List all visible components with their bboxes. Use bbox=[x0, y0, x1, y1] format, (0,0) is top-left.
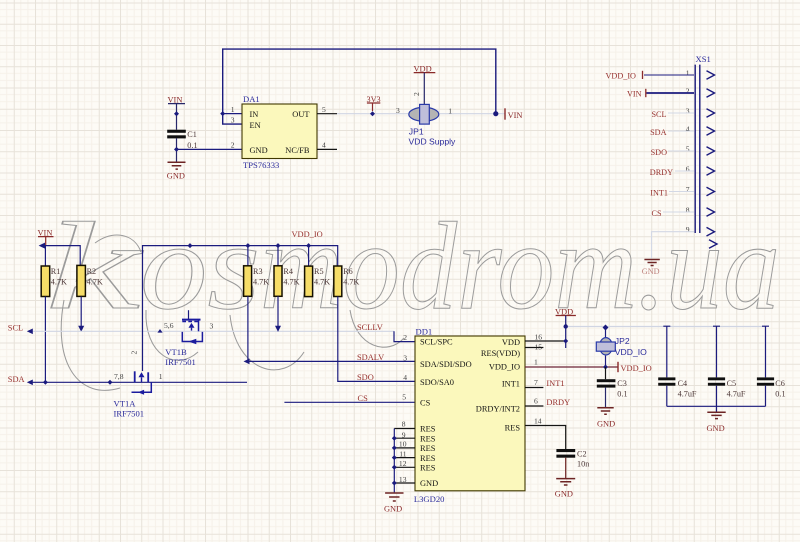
svg-text:1: 1 bbox=[159, 372, 163, 381]
wire cap ground bus bbox=[667, 406, 766, 411]
svg-text:SDA: SDA bbox=[8, 375, 25, 384]
svg-text:CS: CS bbox=[358, 394, 369, 403]
wire DD1 pin14 to C2 bbox=[525, 426, 566, 450]
svg-text:GND: GND bbox=[384, 504, 402, 513]
svg-text:os: os bbox=[140, 198, 260, 336]
svg-text:VIN: VIN bbox=[627, 90, 642, 99]
svg-text:16: 16 bbox=[535, 333, 543, 342]
svg-text:INT1: INT1 bbox=[546, 379, 564, 388]
svg-text:DD1: DD1 bbox=[416, 326, 433, 336]
resistor R1 bbox=[41, 266, 67, 297]
svg-text:IN: IN bbox=[250, 110, 259, 119]
svg-text:SCLLV: SCLLV bbox=[357, 323, 383, 332]
svg-text:IRF7501: IRF7501 bbox=[165, 357, 196, 367]
svg-text:GND: GND bbox=[250, 146, 268, 155]
IC DD1 L3GD20 bbox=[414, 326, 525, 504]
svg-text:4: 4 bbox=[686, 124, 690, 133]
svg-text:VDD_IO: VDD_IO bbox=[292, 230, 323, 239]
power port VDD (above JP1) bbox=[412, 64, 435, 104]
wire CS to DD1 pin5 bbox=[284, 401, 415, 403]
svg-text:SDO: SDO bbox=[357, 373, 374, 382]
svg-text:4.7uF: 4.7uF bbox=[727, 389, 746, 398]
wire top loop (DA1 IN/EN to JP1 right) bbox=[223, 49, 496, 124]
svg-text:VDD_IO: VDD_IO bbox=[621, 364, 652, 373]
stub DD1 pin7 + net label INT1 bbox=[525, 379, 565, 388]
port VIN (right of JP1) bbox=[505, 108, 522, 120]
svg-text:2: 2 bbox=[130, 351, 139, 355]
svg-text:4: 4 bbox=[403, 373, 407, 382]
junctions on RES bus bbox=[392, 436, 397, 486]
svg-text:TPS76333: TPS76333 bbox=[243, 160, 279, 170]
wire SDALV to DD1 pin3 bbox=[244, 359, 416, 365]
svg-text:GND: GND bbox=[167, 172, 185, 181]
svg-text:SDALV: SDALV bbox=[357, 353, 384, 362]
svg-text:SDO/SA0: SDO/SA0 bbox=[420, 378, 454, 387]
wire R1 bottom to SDA bbox=[44, 297, 46, 383]
svg-text:CS: CS bbox=[420, 399, 431, 408]
svg-text:DRDY/INT2: DRDY/INT2 bbox=[476, 404, 520, 413]
port VDD_IO at XS1 pin1 bbox=[606, 71, 695, 81]
power port 3V3 bbox=[367, 95, 381, 116]
wire R3 bottom to SDALV bbox=[247, 296, 249, 361]
svg-text:SDA/SDI/SDO: SDA/SDI/SDO bbox=[420, 360, 472, 369]
svg-text:1: 1 bbox=[448, 107, 452, 116]
resistor R2 bbox=[77, 265, 103, 296]
svg-text:5: 5 bbox=[402, 392, 406, 401]
svg-text:4.7K: 4.7K bbox=[51, 278, 67, 287]
capacitor C4 bbox=[658, 326, 697, 406]
wire R4 bottom arrow to SCL row bbox=[275, 296, 281, 332]
svg-text:3: 3 bbox=[403, 353, 407, 362]
svg-text:6: 6 bbox=[686, 164, 690, 173]
svg-text:VT1A: VT1A bbox=[114, 399, 137, 409]
svg-text:C2: C2 bbox=[577, 450, 587, 459]
svg-text:4: 4 bbox=[322, 141, 326, 150]
svg-text:0.1: 0.1 bbox=[775, 389, 785, 398]
capacitor C6 bbox=[757, 326, 786, 406]
ground at XS1 pin9 bbox=[642, 260, 660, 276]
svg-text:SCL: SCL bbox=[8, 324, 23, 333]
svg-text:SCL: SCL bbox=[651, 110, 666, 119]
transistor VT1B IRF7501 bbox=[157, 320, 213, 367]
svg-text:XS1: XS1 bbox=[696, 54, 711, 64]
ground under C3 bbox=[597, 408, 615, 429]
svg-text:VDD_IO: VDD_IO bbox=[606, 71, 637, 80]
svg-text:1: 1 bbox=[534, 357, 538, 366]
resistor R3 bbox=[244, 266, 270, 297]
jumper JP2 bbox=[596, 327, 647, 368]
DD1 left RES/GND stubs and bus bbox=[394, 429, 415, 493]
svg-text:7: 7 bbox=[534, 378, 538, 387]
power port VIN (top-left) bbox=[168, 95, 186, 129]
svg-text:NC/FB: NC/FB bbox=[285, 146, 310, 155]
net label SCL + light wire bbox=[8, 324, 394, 335]
wire VDD_IO rail bbox=[143, 246, 338, 371]
svg-text:5,6: 5,6 bbox=[164, 321, 174, 330]
svg-text:14: 14 bbox=[534, 416, 542, 425]
svg-text:VIN: VIN bbox=[508, 111, 523, 120]
port VIN at XS1 pin2 bbox=[627, 89, 694, 99]
svg-text:JP1: JP1 bbox=[409, 127, 424, 137]
XS1 pin numbers bbox=[686, 68, 690, 234]
svg-text:4.7K: 4.7K bbox=[283, 278, 299, 287]
XS1 chevrons bbox=[707, 71, 718, 249]
connector XS1 bbox=[695, 54, 711, 233]
svg-text:6: 6 bbox=[534, 397, 538, 406]
svg-text:R6: R6 bbox=[343, 267, 353, 276]
svg-text:GND: GND bbox=[642, 267, 660, 276]
svg-text:CS: CS bbox=[651, 209, 661, 218]
stub DD1 pin15 bbox=[525, 347, 543, 349]
net label SDA + wire bbox=[8, 375, 247, 385]
wire R6 bottom / SDO to DD1 pin4 bbox=[338, 297, 415, 382]
svg-text:RES: RES bbox=[420, 464, 436, 473]
svg-text:VDD_IO: VDD_IO bbox=[615, 347, 647, 357]
svg-text:4.7K: 4.7K bbox=[343, 278, 359, 287]
light bus VDD to caps bbox=[566, 326, 766, 328]
wire VIN to R1/R2 tops bbox=[39, 243, 81, 266]
junction on VIN wire bbox=[174, 111, 179, 116]
svg-text:RES: RES bbox=[420, 454, 436, 463]
wire R2 bottom to SCL bbox=[78, 296, 84, 332]
ground under C4-C6 bbox=[707, 412, 726, 433]
svg-text:SDO: SDO bbox=[651, 148, 667, 157]
ground under RES bus bbox=[384, 493, 404, 513]
ground under C1 bbox=[167, 162, 186, 180]
svg-text:9: 9 bbox=[686, 225, 690, 234]
capacitor C5 bbox=[708, 326, 746, 406]
svg-text:DA1: DA1 bbox=[243, 94, 260, 104]
port VDD_IO (right of DD1) bbox=[618, 362, 652, 373]
svg-text:RES: RES bbox=[505, 423, 521, 432]
svg-text:C1: C1 bbox=[187, 130, 197, 139]
ground under C2 bbox=[555, 479, 575, 499]
svg-text:EN: EN bbox=[250, 121, 261, 130]
capacitor C2 bbox=[556, 449, 589, 478]
wire stub DA1 pin1 bbox=[223, 113, 242, 115]
svg-text:3: 3 bbox=[686, 106, 690, 115]
transistor VT1A IRF7501 bbox=[114, 351, 163, 419]
svg-text:R1: R1 bbox=[51, 267, 61, 276]
svg-text:2: 2 bbox=[231, 141, 235, 150]
svg-text:4.7uF: 4.7uF bbox=[678, 389, 697, 398]
svg-text:RES(VDD): RES(VDD) bbox=[481, 349, 520, 358]
svg-text:3: 3 bbox=[396, 106, 400, 115]
junction dot at top loop / VIN wire bbox=[493, 111, 498, 116]
svg-text:4.7K: 4.7K bbox=[314, 278, 330, 287]
svg-text:8: 8 bbox=[686, 205, 690, 214]
resistor R5 bbox=[305, 266, 331, 297]
junction VDD/pin16 bbox=[563, 339, 568, 344]
jumper JP1 bbox=[396, 104, 456, 146]
svg-text:VT1B: VT1B bbox=[165, 347, 187, 357]
svg-text:GND: GND bbox=[707, 424, 725, 433]
svg-text:4.7K: 4.7K bbox=[87, 278, 103, 287]
svg-text:GND: GND bbox=[555, 489, 573, 498]
svg-text:GND: GND bbox=[420, 479, 438, 488]
svg-text:8: 8 bbox=[402, 419, 406, 428]
junction JP2/C3 on VDD_IO wire bbox=[603, 365, 608, 370]
svg-text:RES: RES bbox=[420, 425, 436, 434]
svg-text:0.1: 0.1 bbox=[187, 141, 197, 150]
svg-text:5: 5 bbox=[686, 144, 690, 153]
svg-text:VDD_IO: VDD_IO bbox=[489, 363, 520, 372]
svg-text:1: 1 bbox=[231, 105, 235, 114]
svg-text:R2: R2 bbox=[87, 267, 97, 276]
svg-text:OUT: OUT bbox=[292, 110, 309, 119]
power port VDD (above DD1 pin16) bbox=[555, 307, 576, 348]
svg-text:SCL/SPC: SCL/SPC bbox=[420, 338, 453, 347]
svg-text:IRF7501: IRF7501 bbox=[114, 409, 145, 419]
svg-text:DRDY: DRDY bbox=[546, 398, 570, 407]
svg-text:C3: C3 bbox=[617, 379, 627, 388]
power port VIN (middle-left) bbox=[38, 228, 54, 245]
svg-text:3: 3 bbox=[231, 115, 235, 124]
resistor R4 bbox=[274, 266, 300, 297]
svg-text:VIN: VIN bbox=[168, 95, 183, 104]
svg-text:DRDY: DRDY bbox=[650, 168, 673, 177]
svg-text:C4: C4 bbox=[678, 379, 688, 388]
junction at DA1 pin1 bbox=[220, 111, 225, 116]
light wire OUT to JP1 to VIN port bbox=[337, 113, 505, 115]
svg-text:INT1: INT1 bbox=[502, 379, 520, 388]
svg-text:2: 2 bbox=[403, 333, 407, 342]
wire C1 to DA1 GND pin bbox=[177, 148, 243, 150]
svg-text:JP2: JP2 bbox=[615, 336, 630, 346]
svg-text:INT1: INT1 bbox=[650, 188, 668, 197]
svg-text:VDD: VDD bbox=[502, 338, 520, 347]
DD1 left pin numbers bbox=[399, 333, 407, 484]
svg-text:C6: C6 bbox=[775, 379, 785, 388]
svg-text:7: 7 bbox=[686, 185, 690, 194]
watermark kosmodrom.ua bbox=[45, 198, 780, 390]
svg-text:2: 2 bbox=[686, 86, 690, 95]
svg-text:5: 5 bbox=[322, 105, 326, 114]
svg-text:4.7K: 4.7K bbox=[253, 278, 269, 287]
svg-text:R4: R4 bbox=[283, 267, 293, 276]
svg-text:10n: 10n bbox=[577, 460, 589, 469]
svg-text:3: 3 bbox=[210, 322, 214, 331]
DD1 right pin numbers bbox=[534, 333, 542, 426]
svg-text:RES: RES bbox=[420, 444, 436, 453]
XS1 net labels SCL..CS with light stubs bbox=[650, 110, 673, 218]
svg-text:R3: R3 bbox=[253, 267, 263, 276]
svg-text:2: 2 bbox=[412, 92, 421, 96]
voltage regulator DA1 TPS76333 bbox=[231, 94, 337, 170]
resistor R6 bbox=[334, 266, 360, 297]
svg-text:C5: C5 bbox=[727, 379, 737, 388]
svg-text:GND: GND bbox=[597, 419, 615, 428]
junction VT1A gate/SDA bbox=[108, 380, 113, 385]
wire DD1 pin16 to VDD bbox=[525, 340, 566, 342]
junction C1/GND wire bbox=[174, 147, 179, 152]
capacitor C1 bbox=[167, 130, 197, 162]
svg-text:0.1: 0.1 bbox=[617, 390, 627, 399]
svg-text:7,8: 7,8 bbox=[114, 372, 124, 381]
svg-text:RES: RES bbox=[420, 434, 436, 443]
svg-text:L3GD20: L3GD20 bbox=[414, 494, 445, 504]
capacitor C3 bbox=[597, 367, 628, 407]
junction dots on light bus bbox=[564, 324, 568, 328]
stub DD1 pin6 + net label DRDY bbox=[525, 398, 570, 407]
svg-text:VDD Supply: VDD Supply bbox=[409, 136, 457, 146]
wire SCLLV to DD1 pin2 bbox=[394, 331, 415, 341]
junctions on VDD_IO rail bbox=[188, 243, 312, 248]
svg-text:R5: R5 bbox=[314, 267, 324, 276]
junction R1/SDA bbox=[43, 380, 48, 385]
svg-text:1: 1 bbox=[686, 68, 690, 77]
svg-text:SDA: SDA bbox=[650, 128, 666, 137]
wire DD1 pin1 to VDD_IO port bbox=[525, 366, 618, 368]
